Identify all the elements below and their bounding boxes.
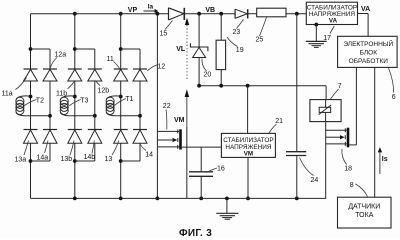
svg-text:ОБРАБОТКИ: ОБРАБОТКИ [349,58,389,65]
svg-text:11: 11 [107,56,114,63]
svg-text:ТОКА: ТОКА [355,212,373,219]
svg-text:11a: 11a [2,91,13,98]
svg-text:11b: 11b [56,90,67,97]
svg-text:ДАТЧИКИ: ДАТЧИКИ [348,203,380,210]
svg-text:VM: VM [244,151,253,158]
svg-text:24: 24 [311,177,319,184]
svg-text:16: 16 [217,165,225,172]
svg-text:ЭЛЕКТРОННЫЙ: ЭЛЕКТРОННЫЙ [343,39,393,48]
svg-text:Ia: Ia [148,3,154,10]
svg-text:13b: 13b [61,156,73,163]
svg-text:13a: 13a [15,157,27,164]
svg-text:12a: 12a [55,51,67,58]
svg-text:8: 8 [350,182,354,189]
svg-text:VL: VL [176,46,186,53]
svg-text:VP: VP [128,7,138,14]
svg-text:23: 23 [233,29,241,36]
svg-text:14: 14 [145,151,153,158]
svg-text:14b: 14b [84,154,96,161]
svg-text:15: 15 [160,30,168,37]
svg-text:БЛОК: БЛОК [360,50,378,57]
svg-text:VM: VM [174,117,185,124]
svg-text:21: 21 [275,118,283,125]
svg-text:6: 6 [392,94,396,101]
svg-text:ФИГ. 3: ФИГ. 3 [179,228,212,238]
svg-text:19: 19 [236,47,244,54]
svg-text:20: 20 [204,71,212,78]
svg-text:13: 13 [105,156,113,163]
svg-text:VB: VB [205,7,215,14]
svg-text:T3: T3 [80,97,88,104]
svg-text:T2: T2 [36,97,44,104]
svg-text:VA: VA [329,18,338,25]
svg-text:Is: Is [382,156,388,163]
svg-text:18: 18 [344,166,352,173]
svg-text:25: 25 [256,36,264,43]
svg-text:VA: VA [361,6,370,13]
svg-text:17: 17 [323,35,331,42]
svg-text:22: 22 [163,103,171,110]
svg-text:T1: T1 [125,96,133,103]
svg-text:12: 12 [158,64,166,71]
svg-text:7: 7 [338,83,342,90]
svg-text:14a: 14a [37,154,49,161]
svg-text:СТАБИЛИЗАТОР: СТАБИЛИЗАТОР [223,137,273,144]
svg-text:12b: 12b [98,88,110,95]
